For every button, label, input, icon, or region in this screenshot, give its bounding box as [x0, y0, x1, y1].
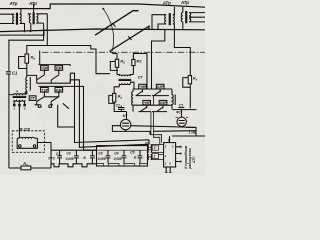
svg-text:2: 2: [168, 162, 171, 166]
svg-text:У: У: [168, 138, 171, 143]
labels 2' 1' boxed: [152, 145, 158, 150]
svg-text:ЛТ: ЛТ: [29, 97, 35, 101]
transformer T5: [9, 91, 27, 106]
nested wire K3: [70, 86, 96, 150]
svg-text:2: 2: [164, 144, 167, 148]
svg-text:С5: С5: [130, 151, 134, 155]
svg-text:0,005: 0,005: [114, 157, 122, 161]
capacitor C3c: [118, 106, 125, 112]
svg-text:0,005: 0,005: [98, 157, 106, 161]
svg-text:АТр: АТр: [9, 1, 18, 6]
resistor Rd: [9, 167, 21, 169]
shield dash-dot line: [42, 51, 205, 53]
wire bus3 left: [0, 31, 44, 35]
svg-text:С3: С3: [98, 152, 102, 156]
svg-text:С1: С1: [179, 104, 184, 108]
rotated text right: [184, 145, 196, 169]
svg-text:С4: С4: [114, 152, 118, 156]
leads bottom of U: [166, 167, 170, 172]
transformer AT2: [28, 4, 48, 31]
svg-text:ЧЭР: ЧЭР: [144, 101, 152, 105]
transformer AT4: [181, 7, 205, 30]
svg-text:КЭР: КЭР: [157, 85, 164, 89]
wire T2 to C1: [9, 23, 44, 71]
bottom rail top: [51, 149, 96, 151]
capacitor Cb3: [90, 150, 95, 163]
microphone M2: [177, 117, 186, 126]
capacitor C1f: [178, 108, 184, 118]
transformer AT3: [152, 7, 174, 30]
svg-text:КЭР: КЭР: [56, 67, 63, 71]
microphone M1 bottom stub: [125, 130, 127, 131]
svg-text:Б: Б: [83, 156, 86, 160]
wire Rb to ST: [116, 67, 118, 74]
svg-text:С1: С1: [116, 103, 120, 107]
svg-text:С1: С1: [12, 71, 18, 76]
wire right edge: [172, 135, 205, 137]
label LT small box: [29, 96, 36, 101]
box U: [164, 143, 176, 167]
resistor Rl: [132, 59, 135, 65]
wire M1 right: [131, 126, 196, 128]
transformer AT1: [0, 9, 25, 32]
svg-text:ЧЭР: ЧЭР: [139, 85, 147, 89]
choke coil: [26, 77, 31, 91]
svg-text:КЭР: КЭР: [160, 101, 167, 105]
capacitor C3: [106, 150, 111, 163]
coil element in F225: [17, 137, 37, 148]
bottom rail bottom with meander: [51, 164, 96, 167]
svg-text:СТ: СТ: [138, 75, 144, 79]
svg-text:АТр: АТр: [162, 0, 171, 5]
wire under coil R: [173, 109, 197, 111]
loop bypass Rb: [110, 62, 118, 71]
switch arc: [103, 9, 113, 51]
svg-text:КЭР: КЭР: [56, 88, 63, 92]
wire Rja to choke: [26, 63, 28, 77]
wire row2 blade down: [63, 103, 69, 109]
resistor Rv: [114, 87, 119, 94]
wire row2 cellB down right: [58, 105, 75, 127]
contact group L row2: [35, 86, 71, 104]
svg-text:ЧЭР: ЧЭР: [41, 67, 49, 71]
resistor Rk: [188, 76, 191, 84]
switch diagonal 1: [95, 11, 139, 36]
svg-text:ТЭР: ТЭР: [41, 88, 48, 92]
wire under M1: [112, 126, 150, 135]
wire T5 to F225: [18, 106, 20, 138]
svg-text:4: 4: [23, 106, 26, 110]
wires R group bottoms: [151, 96, 162, 145]
wire R2top to contacts: [146, 54, 148, 90]
wire T2 to R-ja: [27, 14, 110, 74]
nested wire K2: [70, 80, 147, 148]
svg-text:АТр: АТр: [180, 0, 189, 5]
winding leads to U: [151, 145, 164, 160]
nested corner wires top right: [152, 30, 165, 89]
switch diagonal 2: [110, 26, 149, 51]
contact R row2: [133, 100, 172, 111]
wire C1 down: [8, 95, 10, 168]
wire Rl to ST: [132, 66, 134, 75]
rails inside box: [97, 150, 148, 166]
nested wire K1: [70, 73, 149, 144]
svg-text:Ф 225: Ф 225: [20, 127, 31, 131]
wire Rv down: [114, 102, 126, 112]
wire bus1 top: [0, 4, 205, 9]
svg-text:УТС: УТС: [48, 157, 56, 161]
leads right of U: [176, 147, 181, 162]
LT2 windings: [148, 145, 152, 153]
loop bypass Rja: [19, 57, 27, 69]
svg-text:Ф1: Ф1: [176, 111, 181, 115]
contact group L row1: [27, 51, 71, 84]
svg-text:АТр: АТр: [28, 1, 37, 6]
wire M2 right: [182, 127, 196, 137]
transformer ST: [117, 75, 134, 90]
resistor Rb: [110, 51, 117, 59]
wire under M2 from junction: [153, 130, 196, 133]
wire U box top stub: [169, 136, 171, 143]
svg-text:0,005: 0,005: [66, 157, 74, 161]
contact R row1: [133, 84, 172, 95]
capacitor C5: [138, 150, 143, 163]
svg-text:АТС: АТС: [192, 156, 196, 164]
svg-text:2': 2': [153, 146, 157, 150]
contact group R right coil: [172, 89, 175, 110]
wire Rl top: [133, 54, 147, 60]
svg-text:С1: С1: [56, 152, 60, 156]
capacitor C1: [6, 72, 11, 95]
wire choke to T5: [25, 91, 27, 94]
svg-text:1': 1': [154, 155, 157, 159]
contact hooks below row2: [38, 105, 51, 108]
junction dots: [24, 8, 176, 33]
wire bus2: [0, 29, 205, 32]
svg-text:С2: С2: [66, 151, 70, 155]
contact group R left coil: [132, 89, 133, 112]
capacitor Cb1: [57, 150, 62, 163]
microphone M1: [120, 119, 130, 129]
svg-text:ЛТ: ЛТ: [144, 142, 150, 146]
filter box bottom: [97, 146, 148, 166]
box F225 dashed: [12, 131, 44, 153]
wire F225 out right: [37, 143, 51, 169]
svg-text:1 мВ: 1 мВ: [189, 130, 197, 134]
svg-text:Ф2: Ф2: [136, 59, 142, 63]
capacitor C4: [122, 150, 127, 163]
capacitor Cb2: [74, 150, 79, 163]
resistor Rja: [25, 54, 29, 63]
